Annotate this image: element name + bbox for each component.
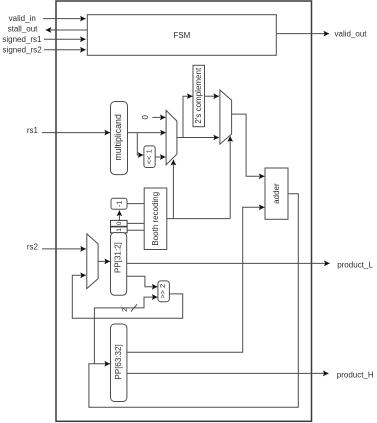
svg-text:adder: adder — [272, 183, 281, 204]
svg-text:2: 2 — [120, 308, 129, 312]
wire rs2 — [42, 248, 86, 250]
shifter >>2 — [158, 281, 170, 302]
wire valid_in — [43, 18, 86, 20]
wire mux M1 out to mux M2 — [177, 137, 219, 139]
svg-text:rs2: rs2 — [27, 243, 39, 252]
wire signed_rs1 — [44, 38, 86, 40]
wire shifter >>2 out loop to mux M3 — [72, 275, 182, 318]
block Booth recoding — [144, 188, 167, 250]
wire mux M1 select from Booth — [172, 160, 174, 219]
svg-text:0: 0 — [116, 221, 123, 225]
wire constant 0 to mux M1 — [152, 116, 165, 118]
wire stall_out — [46, 29, 88, 31]
wire cell 1 to Booth recoding — [127, 229, 144, 231]
wire rs1 — [42, 132, 110, 134]
svg-text:0: 0 — [141, 115, 150, 120]
svg-text:valid_in: valid_in — [9, 14, 36, 23]
svg-text:product_L: product_L — [337, 261, 373, 270]
wire Booth out to mux selects — [167, 218, 230, 220]
register multiplicand — [111, 102, 128, 175]
wire product_H — [127, 372, 329, 374]
block 2's complement — [193, 65, 205, 126]
svg-text:PP[63:32]: PP[63:32] — [114, 344, 123, 379]
svg-text:stall_out: stall_out — [8, 25, 39, 34]
mux M2 — [220, 90, 232, 144]
svg-text:signed_rs2: signed_rs2 — [3, 45, 43, 54]
wire cell 0 to Booth recoding — [127, 222, 144, 224]
wire -1 to Booth recoding — [127, 203, 144, 205]
svg-text:1: 1 — [116, 228, 123, 232]
svg-text:valid_out: valid_out — [335, 29, 368, 38]
register -1 bit — [111, 198, 127, 209]
wire signed_rs2 — [44, 49, 86, 51]
wire valid_out — [276, 33, 329, 35]
shifter <<1 — [144, 146, 155, 168]
svg-text:PP[31:2]: PP[31:2] — [114, 242, 123, 273]
wire 2-bit shift-in branch — [94, 297, 157, 364]
wire mux M2 out to adder — [232, 114, 265, 176]
adder U_ADD — [265, 168, 288, 219]
wire branch to 2's complement — [183, 96, 193, 137]
wire cell 0 up to -1 bit — [118, 211, 120, 221]
wire PP[31:2] out to shifter >>2 — [127, 276, 158, 287]
wire product_L — [127, 262, 330, 264]
wire mux M2 select from Booth — [229, 136, 231, 218]
svg-text:product_H: product_H — [337, 371, 374, 380]
register PP[63:32] — [111, 324, 127, 402]
svg-text:signed_rs1: signed_rs1 — [2, 35, 42, 44]
outer border frame — [56, 1, 312, 421]
wire 2's complement out to mux M2 — [205, 95, 219, 97]
bus width slash 2 — [131, 304, 137, 311]
mux M3 — [87, 234, 98, 289]
wire branch to shifter <<1 — [137, 133, 143, 155]
wire PP[63:32] out to adder input 2 — [127, 207, 265, 352]
bit cell 1 — [111, 227, 128, 233]
FSM block U_FSM — [87, 15, 276, 56]
svg-text:Booth recoding: Booth recoding — [151, 192, 160, 246]
svg-text:FSM: FSM — [173, 31, 190, 40]
mux M1 — [166, 110, 177, 164]
svg-text:multiplicand: multiplicand — [113, 114, 123, 161]
wire multiplicand out to mux M1 — [128, 132, 166, 134]
wire adder out loop to PP[63:32] — [89, 194, 298, 407]
bit cell 0 — [111, 220, 128, 226]
svg-text:>> 2: >> 2 — [158, 284, 167, 299]
svg-text:rs1: rs1 — [27, 126, 39, 135]
wire mux M3 out to PP[31:2] — [98, 260, 110, 262]
wire shifter out to mux M1 — [155, 156, 165, 158]
svg-text:<< 1: << 1 — [144, 149, 153, 164]
svg-text:2's complement: 2's complement — [194, 67, 203, 124]
register PP[31:2] — [111, 233, 127, 296]
svg-text:-1: -1 — [115, 200, 124, 207]
